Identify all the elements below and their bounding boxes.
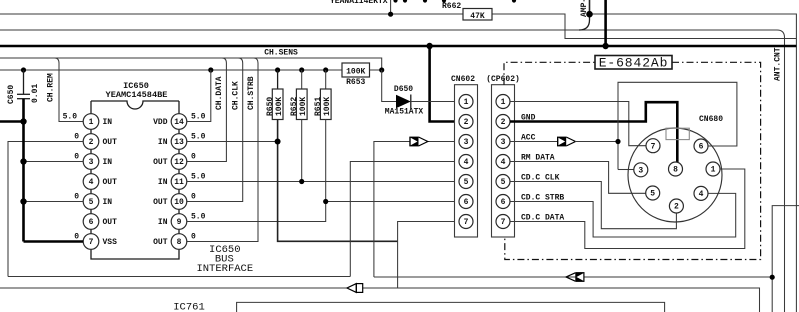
junction dot ACC <box>615 139 620 144</box>
junction dot <box>388 12 393 17</box>
pin 4 IC650 <box>83 174 99 190</box>
wire thick from top edge <box>604 0 607 46</box>
wire CH.STRB branch <box>187 58 258 242</box>
svg-text:7: 7 <box>464 218 469 227</box>
svg-text:8: 8 <box>177 238 182 247</box>
svg-text:0: 0 <box>191 152 196 161</box>
svg-text:14: 14 <box>174 118 184 127</box>
pin 4 CN680 <box>694 186 708 200</box>
connector CP602 body <box>492 85 515 237</box>
pin 5 CP602 <box>496 175 510 189</box>
resistor R653 100K <box>342 63 370 77</box>
svg-text:11: 11 <box>174 178 184 187</box>
wire bus L1 (47K line) <box>0 14 796 39</box>
svg-text:R652: R652 <box>290 97 299 116</box>
pin 3 IC650 <box>83 154 99 170</box>
wire ACC to CN680 pin3 <box>618 169 634 171</box>
wire R651 lower <box>325 120 327 202</box>
junction thick dot <box>426 43 432 49</box>
connector CN680 key notch <box>666 128 689 139</box>
wire pin3 to GND riser <box>24 161 84 163</box>
pin 12 IC650 <box>171 154 187 170</box>
wire stub to cut component <box>390 0 392 14</box>
svg-text:CH.STRB: CH.STRB <box>247 76 256 110</box>
svg-text:5.0: 5.0 <box>191 172 206 181</box>
junction dot R651 <box>323 199 328 204</box>
svg-text:8: 8 <box>673 166 678 175</box>
wire pin3 net bottom <box>374 276 772 278</box>
pin 1 CN602 <box>459 95 473 109</box>
pin 8 IC650 <box>171 234 187 250</box>
node cut pin dot <box>512 0 516 3</box>
svg-text:OUT: OUT <box>103 138 118 147</box>
svg-text:4: 4 <box>89 178 94 187</box>
svg-text:10: 10 <box>174 198 184 207</box>
connector arrow open <box>347 284 356 293</box>
wire CD.C CLK to CN680 pin2 <box>510 182 676 229</box>
wire IC761 box <box>237 302 665 312</box>
wire bold stub to left edge <box>0 120 24 123</box>
resistor R651 100K <box>325 70 327 89</box>
pin 9 IC650 <box>171 214 187 230</box>
svg-text:6: 6 <box>501 198 506 207</box>
svg-text:IN: IN <box>158 178 168 187</box>
junction thick dot <box>602 43 608 49</box>
svg-text:4: 4 <box>464 158 469 167</box>
svg-text:2: 2 <box>501 118 506 127</box>
svg-text:ANT.CNT: ANT.CNT <box>774 47 783 81</box>
svg-text:R651: R651 <box>314 97 323 116</box>
svg-text:7: 7 <box>501 218 506 227</box>
junction bold dot <box>20 198 26 204</box>
wire L1 right segment <box>590 14 797 312</box>
pin 1 CP602 <box>496 95 510 109</box>
wire pin9 to R651 <box>187 202 326 222</box>
svg-text:100K: 100K <box>323 97 332 116</box>
pin 6 CN680 <box>694 139 708 153</box>
svg-text:3: 3 <box>464 138 469 147</box>
svg-text:47K: 47K <box>470 12 485 21</box>
svg-text:CN680: CN680 <box>699 115 723 124</box>
svg-text:6: 6 <box>699 143 704 152</box>
junction dot R652 <box>299 67 304 72</box>
svg-text:2: 2 <box>464 118 469 127</box>
wire GND bold to CN680 pin8 <box>510 102 677 162</box>
pin 6 CP602 <box>496 195 510 209</box>
wire R653 to diode <box>382 70 396 102</box>
pin 2 CP602 <box>496 115 510 129</box>
connector arrow out pin3 <box>409 137 418 147</box>
wire CN602 pin7 riser <box>398 222 459 289</box>
node cut pin dot <box>423 0 427 3</box>
svg-text:AMP-: AMP- <box>580 0 589 17</box>
wire ACC loop to CN680 pin6 <box>618 82 737 169</box>
wire ANT route <box>772 206 799 312</box>
svg-text:CH.REM: CH.REM <box>47 73 56 102</box>
svg-text:100K: 100K <box>346 67 365 76</box>
wire CD.C DATA to CN680 pin1 <box>510 169 745 249</box>
wire bottom bus with arrow <box>0 287 347 289</box>
svg-text:C650: C650 <box>7 85 16 104</box>
junction dot R650/pin13 <box>275 139 281 145</box>
pin 6 IC650 <box>83 214 99 230</box>
wire pin11/R652 to CN602 pin5 <box>187 181 459 183</box>
connector CN680 shell <box>628 128 722 222</box>
diode D650 <box>396 95 411 108</box>
pin 5 CN602 <box>459 175 473 189</box>
resistor R652 100K <box>301 70 303 89</box>
junction AMP dot <box>586 11 593 18</box>
junction dot R652/pin11 <box>299 179 304 184</box>
pin 1 CN680 <box>706 162 720 176</box>
svg-text:0: 0 <box>74 132 79 141</box>
pin 2 CN602 <box>459 115 473 129</box>
label box E-6842Ab <box>595 56 672 70</box>
svg-text:IN: IN <box>158 218 168 227</box>
pin 6 CN602 <box>459 195 473 209</box>
svg-text:0: 0 <box>191 192 196 201</box>
wire pin13 to R650 <box>187 141 278 143</box>
pin 3 CN680 <box>634 163 648 177</box>
svg-text:ACC: ACC <box>521 134 536 143</box>
pin 4 CP602 <box>496 155 510 169</box>
svg-text:12: 12 <box>174 158 184 167</box>
svg-text:2: 2 <box>89 138 94 147</box>
svg-text:D650: D650 <box>394 85 413 94</box>
wire pin14 VDD riser <box>187 70 211 122</box>
wire CH.DATA branch <box>187 58 227 162</box>
capacitor C650 <box>17 93 30 95</box>
svg-text:0.01: 0.01 <box>31 84 40 103</box>
svg-text:4: 4 <box>501 158 506 167</box>
junction dot R653 right <box>379 67 384 72</box>
junction dot 5V/C650 <box>21 67 26 72</box>
svg-text:VDD: VDD <box>153 118 168 127</box>
svg-text:2: 2 <box>674 203 679 212</box>
node cut pin dot <box>403 0 407 3</box>
pin 2 IC650 <box>83 134 99 150</box>
svg-text:1: 1 <box>501 98 506 107</box>
junction bold dot <box>20 158 26 164</box>
svg-text:IC761: IC761 <box>173 302 205 312</box>
wire GND riser bold lower <box>22 99 25 242</box>
resistor R650 100K <box>277 70 279 89</box>
wire pin2 to left riser <box>8 142 83 277</box>
wire AMP branch <box>589 0 591 14</box>
svg-text:CD.C STRB: CD.C STRB <box>521 194 564 203</box>
svg-text:INTERFACE: INTERFACE <box>196 263 253 275</box>
pin 5 CN680 <box>646 186 660 200</box>
svg-text:CD.C DATA: CD.C DATA <box>521 214 564 223</box>
wire R652 lower <box>301 120 303 182</box>
pin 4 CN602 <box>459 155 473 169</box>
svg-text:9: 9 <box>177 218 182 227</box>
svg-text:YEAMC14584BE: YEAMC14584BE <box>106 90 168 100</box>
svg-text:1: 1 <box>464 98 469 107</box>
svg-text:5.0: 5.0 <box>63 112 78 121</box>
junction dot R651 <box>323 67 328 72</box>
wire ACC to junction <box>575 141 618 143</box>
wire thick GND bus L3 <box>0 45 796 48</box>
svg-text:GND: GND <box>521 114 536 123</box>
svg-text:3: 3 <box>501 138 506 147</box>
svg-text:0: 0 <box>74 152 79 161</box>
connector arrow ACC <box>557 137 566 147</box>
svg-text:13: 13 <box>174 138 184 147</box>
wire thick drop to CN602 pin2 <box>430 46 459 122</box>
wire CH.CLK branch <box>187 58 243 202</box>
wire CP602 pin1 to CN680 pin7 <box>510 102 646 146</box>
svg-text:5: 5 <box>501 178 506 187</box>
wire pin5 to GND riser <box>24 201 84 203</box>
svg-text:5.0: 5.0 <box>191 132 206 141</box>
svg-text:OUT: OUT <box>153 198 168 207</box>
svg-text:OUT: OUT <box>153 238 168 247</box>
svg-text:CH.SENS: CH.SENS <box>264 49 298 58</box>
svg-text:5: 5 <box>650 190 655 199</box>
svg-text:IN: IN <box>103 198 113 207</box>
svg-text:0: 0 <box>74 192 79 201</box>
pin 7 CP602 <box>496 215 510 229</box>
junction dot <box>770 275 775 280</box>
wire R650 bold lower <box>278 120 398 242</box>
svg-text:0: 0 <box>74 232 79 241</box>
svg-text:OUT: OUT <box>153 158 168 167</box>
pin 1 IC650 <box>83 114 99 130</box>
wire CN602 pin4 riser <box>350 162 459 277</box>
node cut pin dot <box>442 0 446 3</box>
svg-text:1: 1 <box>711 166 716 175</box>
svg-text:OUT: OUT <box>103 178 118 187</box>
wire RM DATA to CN680 pin5 <box>510 162 646 194</box>
wire diode to CN602 pin1 <box>411 101 459 103</box>
pin 13 IC650 <box>171 134 187 150</box>
svg-text:100K: 100K <box>299 97 308 116</box>
wire R651 to CN602 pin6 <box>326 201 459 203</box>
wire CN602 pin3 riser <box>374 142 459 278</box>
svg-text:CN602: CN602 <box>451 75 475 84</box>
svg-text:0: 0 <box>191 232 196 241</box>
wire 5V rail L5 <box>0 69 382 71</box>
svg-text:IN: IN <box>158 138 168 147</box>
svg-text:7: 7 <box>89 238 94 247</box>
svg-text:OUT: OUT <box>103 218 118 227</box>
pin 10 IC650 <box>171 194 187 210</box>
svg-text:CD.C CLK: CD.C CLK <box>521 174 560 183</box>
svg-text:1: 1 <box>89 118 94 127</box>
svg-text:IN: IN <box>103 158 113 167</box>
svg-text:5.0: 5.0 <box>191 112 206 121</box>
svg-text:RM DATA: RM DATA <box>521 154 555 163</box>
wire GND riser upper <box>23 70 25 94</box>
connector CN602 body <box>455 85 478 237</box>
svg-text:MA151ATX: MA151ATX <box>385 108 424 117</box>
connector arrow in bottom <box>566 273 575 281</box>
wire CH.SENS bus L4 <box>0 58 382 70</box>
svg-text:VSS: VSS <box>103 238 118 247</box>
svg-text:YEANA114EKTX: YEANA114EKTX <box>330 0 388 6</box>
wire pin7 VSS bold <box>24 240 84 243</box>
junction bold dot <box>20 118 26 124</box>
svg-text:6: 6 <box>89 218 94 227</box>
pin 2 CN680 <box>669 199 683 213</box>
pin 11 IC650 <box>171 174 187 190</box>
pin 7 CN602 <box>459 215 473 229</box>
pin 5 IC650 <box>83 194 99 210</box>
resistor R662 47K <box>463 9 492 21</box>
svg-text:7: 7 <box>651 142 656 151</box>
boundary dash-dot E-6842Ab unit <box>504 62 595 84</box>
pin 8 CN680 <box>669 162 683 176</box>
svg-text:R662: R662 <box>442 2 461 11</box>
wire ACC with arrow <box>510 141 558 143</box>
svg-text:(CP602): (CP602) <box>486 75 520 84</box>
wire CH.REM branch <box>55 58 84 122</box>
svg-text:4: 4 <box>699 190 704 199</box>
junction dot R650 <box>275 67 280 72</box>
svg-text:5: 5 <box>89 198 94 207</box>
pin 7 IC650 <box>83 234 99 250</box>
svg-text:IN: IN <box>103 118 113 127</box>
svg-text:100K: 100K <box>275 97 284 116</box>
svg-text:CH.CLK: CH.CLK <box>232 81 241 110</box>
pin 3 CP602 <box>496 135 510 149</box>
svg-text:6: 6 <box>464 198 469 207</box>
svg-text:3: 3 <box>89 158 94 167</box>
op-amp U1 IC650 body outline <box>91 101 179 109</box>
pin 3 CN602 <box>459 135 473 149</box>
svg-text:E-6842Ab: E-6842Ab <box>599 55 669 70</box>
svg-text:5.0: 5.0 <box>191 212 206 221</box>
pin 7 CN680 <box>646 139 660 153</box>
node cut pin dot <box>393 0 397 3</box>
svg-text:R650: R650 <box>266 97 275 116</box>
wire bottom link pin2-pin4 <box>8 276 350 278</box>
svg-text:CH.DATA: CH.DATA <box>215 76 224 110</box>
wire CD.C STRB to CN680 pin4 <box>510 193 736 237</box>
svg-text:5: 5 <box>464 178 469 187</box>
pin 14 IC650 <box>171 114 187 130</box>
svg-text:R653: R653 <box>346 78 365 87</box>
junction dot VDD riser <box>208 67 213 72</box>
svg-text:3: 3 <box>638 166 643 175</box>
